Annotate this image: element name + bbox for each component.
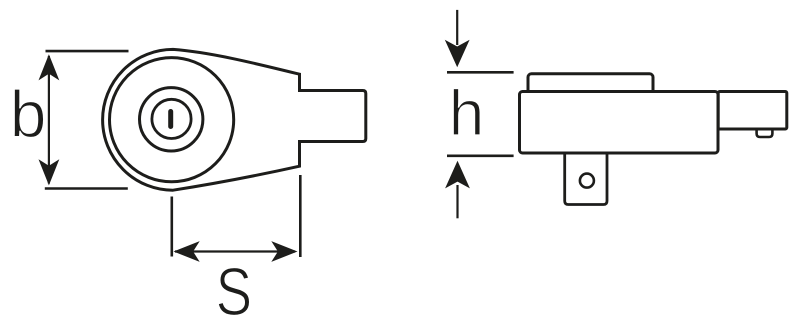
square drive below body [565,153,607,205]
ratchet ring circle [110,58,234,182]
dimension b : dimension line with arrows [39,54,60,185]
dimension h : extension line bottom [447,155,514,158]
dimension S : extension line right [299,175,302,257]
drive collar circle [140,88,203,151]
dimension S : dimension line with arrows [174,241,298,262]
mounting tang 9x12 [718,92,787,130]
head outline with rectangular tang [103,49,366,190]
spring pin nub under tang [757,129,773,137]
dimension h : extension line top [447,71,514,74]
dimension h : lower arrow pointing up [445,161,470,219]
svg-text:S: S [216,254,252,325]
svg-text:h: h [449,77,485,149]
dimension S : extension line left [171,197,174,257]
inner boss circle [152,99,191,138]
pin hole in square drive [580,174,594,188]
reversing lever cap [528,74,653,98]
dimension h : upper arrow pointing down [445,10,470,67]
ratchet body [520,92,719,154]
center slot [168,112,173,127]
svg-text:b: b [10,77,47,151]
dimension b : extension line top [46,50,129,53]
dimension b : extension line bottom [45,187,128,190]
